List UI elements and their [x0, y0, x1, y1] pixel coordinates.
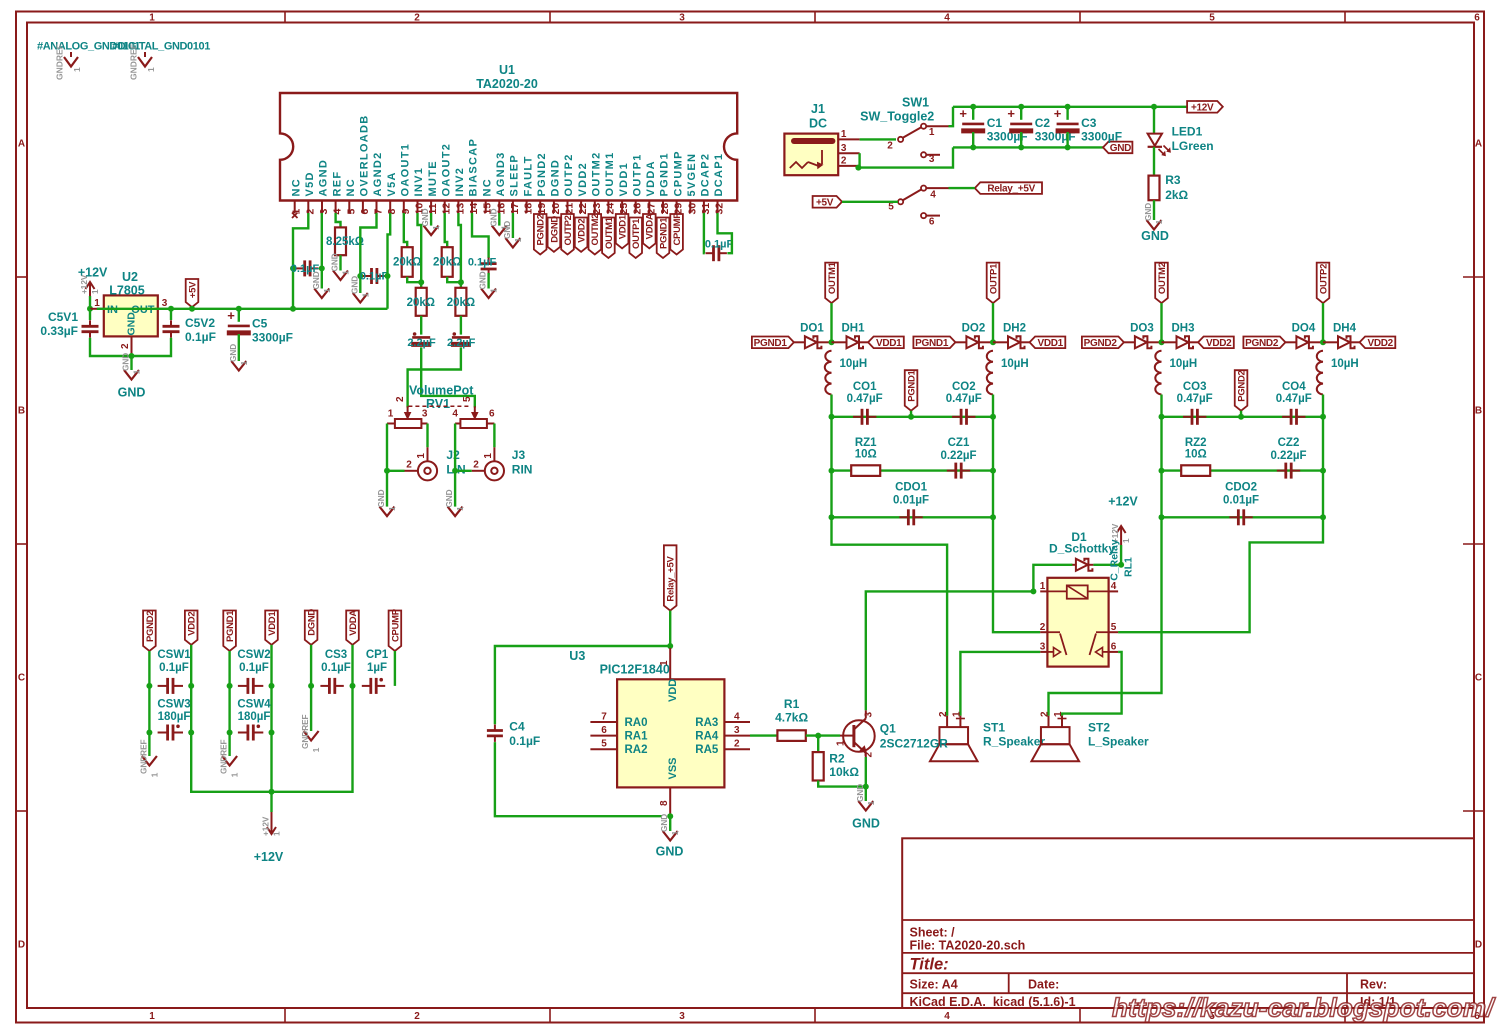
wire Q1 collector to relay pin1: [866, 591, 1034, 710]
resistor R1 4.7k: [777, 730, 805, 741]
junction: [87, 306, 93, 312]
svg-text:2: 2: [1040, 622, 1046, 633]
wire: [1160, 395, 1162, 417]
svg-text:B: B: [18, 406, 25, 417]
svg-text:VDD1: VDD1: [618, 214, 629, 239]
svg-text:PGND1: PGND1: [225, 610, 236, 642]
svg-text:20: 20: [550, 203, 562, 215]
diode DH1: [847, 336, 859, 348]
svg-text:OAOUT1: OAOUT1: [400, 143, 412, 197]
svg-text:3: 3: [841, 143, 847, 154]
svg-text:31: 31: [700, 203, 712, 215]
svg-text:30: 30: [686, 203, 698, 215]
svg-text:NC: NC: [481, 178, 493, 197]
diode DH4: [1338, 336, 1350, 348]
svg-text:OUTP2: OUTP2: [1318, 264, 1329, 294]
svg-text:2: 2: [841, 156, 847, 167]
inductor 10uH (OUTM1): [825, 351, 832, 395]
svg-text:24: 24: [604, 203, 616, 215]
ground GNDREF (PGND2): [148, 733, 150, 757]
svg-text:C2: C2: [1035, 116, 1051, 130]
svg-text:3: 3: [162, 298, 168, 309]
svg-text:0.33µF: 0.33µF: [40, 324, 78, 338]
global label OUTM2 (pin 23): [589, 214, 602, 255]
svg-text:5: 5: [888, 202, 894, 213]
svg-text:Rev:: Rev:: [1360, 978, 1387, 992]
global label OUTM1: [825, 263, 838, 304]
svg-text:VDD2: VDD2: [1367, 338, 1393, 349]
svg-text:GND: GND: [503, 221, 512, 239]
junction: [815, 733, 821, 739]
wire SW1 throw1 to +12V rail: [949, 107, 954, 126]
wire: [387, 470, 405, 472]
ground: [130, 356, 132, 370]
global label VDD1 (bank): [265, 611, 278, 645]
capacitor CSW4 180uF: [246, 725, 249, 741]
svg-text:CSW4: CSW4: [237, 699, 271, 711]
svg-text:GND: GND: [1144, 203, 1153, 221]
svg-text:PGND1: PGND1: [915, 338, 949, 349]
global label PGND2: [1082, 337, 1124, 349]
global label VDD2: [1360, 337, 1396, 349]
capacitor C5V1 0.33uF: [89, 309, 91, 320]
svg-text:LED1: LED1: [1172, 125, 1203, 139]
wire J1 pins 2,3: [858, 153, 860, 167]
svg-text:Date:: Date:: [1028, 978, 1059, 992]
diode DO2: [966, 336, 978, 348]
diode DO4: [1296, 336, 1308, 348]
svg-text:1: 1: [1053, 711, 1064, 717]
svg-text:DO1: DO1: [800, 323, 824, 335]
svg-text:5: 5: [1111, 622, 1117, 633]
wire OUTP2 rail to relay pin5: [1118, 517, 1323, 632]
svg-text:ST1: ST1: [983, 721, 1005, 735]
svg-text:+5V: +5V: [816, 197, 834, 208]
svg-text:1: 1: [951, 711, 962, 717]
capacitor C2 3300uF: [1020, 107, 1022, 120]
svg-text:+12V: +12V: [262, 816, 271, 836]
svg-text:180µF: 180µF: [158, 711, 191, 723]
svg-text:SW1: SW1: [902, 96, 929, 110]
svg-text:1: 1: [133, 369, 142, 374]
svg-text:PGND1: PGND1: [658, 217, 669, 249]
svg-text:U1: U1: [499, 63, 515, 77]
svg-text:2: 2: [304, 209, 316, 215]
wire pot1 pin3 to J2: [426, 424, 428, 448]
svg-text:D_Schottky: D_Schottky: [1049, 542, 1115, 556]
svg-text:PGND2: PGND2: [536, 214, 547, 245]
svg-text:2: 2: [938, 711, 949, 717]
svg-text:3: 3: [864, 712, 875, 718]
svg-text:1: 1: [456, 506, 465, 511]
svg-text:1: 1: [1122, 538, 1131, 543]
capacitor CO4 0.47uF: [1290, 409, 1293, 425]
svg-text:DH4: DH4: [1333, 323, 1357, 335]
svg-text:OUTM2: OUTM2: [590, 214, 601, 246]
svg-text:1: 1: [416, 453, 427, 459]
capacitor CSW3 180uF: [166, 725, 169, 741]
global label PGND1 (bank): [223, 611, 236, 652]
svg-text:0.1µF: 0.1µF: [321, 662, 351, 674]
capacitor C4 0.1uF: [487, 729, 503, 732]
wire R1 to Q1: [806, 734, 840, 736]
capacitor C5V2 0.1uF: [170, 309, 172, 320]
svg-text:PGND2: PGND2: [1245, 338, 1279, 349]
svg-text:22: 22: [577, 203, 589, 215]
svg-text:REF: REF: [331, 171, 343, 197]
capacitor 2.2uF (right): [452, 336, 470, 339]
svg-text:0.47µF: 0.47µF: [1177, 393, 1213, 405]
svg-text:CO2: CO2: [952, 381, 976, 393]
svg-text:Q1: Q1: [880, 722, 896, 736]
svg-text:Relay_+5V: Relay_+5V: [666, 556, 677, 602]
svg-text:4: 4: [734, 712, 740, 723]
svg-text:0.1µF: 0.1µF: [360, 271, 389, 283]
svg-text:26: 26: [632, 203, 644, 215]
wire: [351, 645, 353, 686]
svg-text:RV1: RV1: [426, 397, 450, 411]
svg-text:OUTP1: OUTP1: [631, 218, 642, 249]
svg-text:AGND: AGND: [318, 159, 330, 197]
svg-text:VDDA: VDDA: [645, 160, 657, 196]
svg-text:1: 1: [361, 292, 370, 297]
global label PGND1: [913, 337, 955, 349]
svg-text:3: 3: [929, 154, 935, 165]
capacitor C5 3300uF: [238, 309, 240, 322]
wire: [830, 395, 832, 417]
wire pot2 pin4: [454, 424, 456, 471]
capacitor CSW1 0.1uF: [166, 678, 169, 694]
svg-text:0.1µF: 0.1µF: [468, 257, 497, 269]
svg-text:CO1: CO1: [853, 381, 877, 393]
svg-text:+12V: +12V: [1191, 102, 1214, 113]
svg-text:C1: C1: [987, 116, 1003, 130]
svg-text:RZ2: RZ2: [1185, 437, 1207, 449]
global label VDD1: [1030, 337, 1066, 349]
svg-text:NC: NC: [290, 178, 302, 197]
global label DGND (bank): [305, 611, 318, 645]
diode DH3: [1177, 336, 1189, 348]
wire pin8 V5A to +5V rail: [388, 213, 391, 309]
svg-text:2: 2: [414, 1011, 420, 1022]
svg-text:VDD1: VDD1: [618, 162, 630, 197]
wire: [1322, 395, 1324, 417]
wire INV1 cap to right pot wiper: [421, 347, 475, 407]
svg-text:CSW1: CSW1: [157, 649, 191, 661]
svg-text:1: 1: [432, 225, 441, 230]
svg-text:4: 4: [332, 209, 344, 215]
wire pot2 pin6 to J3: [493, 424, 495, 448]
wire OUTM1 down: [830, 303, 832, 342]
junction: [189, 306, 195, 312]
junction: [418, 279, 424, 285]
wire: [460, 316, 462, 335]
svg-text:CPUMP: CPUMP: [672, 150, 684, 196]
wire CO row: [832, 416, 994, 418]
ground: [386, 471, 388, 507]
no-connect pin 1: [292, 213, 298, 219]
wire bank columns: [148, 686, 150, 733]
svg-text:8.25kΩ: 8.25kΩ: [326, 236, 364, 248]
svg-text:3: 3: [734, 725, 740, 736]
wire pin7 AGND2: [360, 213, 376, 276]
svg-text:1: 1: [149, 13, 155, 24]
svg-text:J3: J3: [512, 448, 526, 462]
svg-text:GNDREF: GNDREF: [301, 714, 310, 749]
wire pin9 OAOUT1: [404, 213, 407, 247]
svg-text:J2: J2: [446, 448, 460, 462]
resistor RZ2 10ohm: [1181, 465, 1210, 476]
ground: [238, 349, 240, 362]
junction: [1159, 514, 1165, 520]
wire: [228, 651, 230, 686]
svg-text:OUTP1: OUTP1: [988, 263, 999, 294]
svg-text:VDD2: VDD2: [577, 162, 589, 197]
junction: [1159, 468, 1165, 474]
wire GND rail: [953, 146, 1103, 148]
svg-text:VDD1: VDD1: [1037, 338, 1063, 349]
wire pin4 REF: [336, 213, 341, 227]
svg-text:RZ1: RZ1: [855, 437, 877, 449]
svg-text:IN: IN: [107, 304, 118, 316]
svg-text:BIASCAP: BIASCAP: [468, 138, 480, 197]
svg-text:VDD2: VDD2: [1206, 338, 1232, 349]
wire R2 to GND: [818, 781, 866, 787]
svg-text:INV2: INV2: [454, 167, 466, 197]
svg-text:5: 5: [462, 396, 473, 402]
svg-text:CO3: CO3: [1183, 381, 1207, 393]
svg-text:PGND2: PGND2: [1236, 370, 1247, 401]
wire pin2 V5D to +5V rail: [293, 213, 308, 309]
svg-text:U2: U2: [122, 270, 138, 284]
svg-text:0.47µF: 0.47µF: [847, 393, 883, 405]
junction: [385, 273, 391, 279]
wire +5V to SW1: [842, 201, 898, 203]
junction: [357, 273, 363, 279]
svg-text:DGND: DGND: [307, 609, 318, 636]
global label CPUMP (bank): [389, 611, 402, 652]
svg-text:+5V: +5V: [187, 281, 198, 298]
svg-text:GND: GND: [350, 276, 359, 294]
svg-text:1: 1: [240, 360, 249, 365]
svg-text:DO3: DO3: [1130, 323, 1154, 335]
global label DGND (pin 20): [548, 218, 561, 252]
wire C4 top: [495, 646, 670, 724]
svg-text:21: 21: [564, 203, 576, 215]
junction: [146, 730, 152, 736]
svg-text:L7805: L7805: [109, 284, 144, 298]
svg-text:4: 4: [1111, 581, 1117, 592]
svg-text:1: 1: [671, 830, 680, 835]
svg-text:https://kazu-car.blogspot.com/: https://kazu-car.blogspot.com/: [1112, 993, 1496, 1023]
svg-text:6: 6: [1111, 642, 1117, 653]
svg-text:C_Relay: C_Relay: [1109, 539, 1121, 581]
svg-text:C: C: [1475, 673, 1482, 684]
junction: [990, 339, 996, 345]
junction: [667, 643, 673, 649]
svg-text:RA4: RA4: [695, 731, 719, 743]
svg-text:DH1: DH1: [841, 323, 865, 335]
LED LED1 LGreen: [1153, 107, 1155, 134]
junction: [290, 265, 296, 271]
svg-text:1: 1: [836, 740, 847, 746]
svg-text:3: 3: [422, 409, 428, 420]
svg-text:FAULT: FAULT: [522, 155, 534, 196]
svg-text:+: +: [959, 106, 967, 121]
svg-text:PGND1: PGND1: [906, 369, 917, 401]
capacitor C3 3300uF: [1066, 107, 1068, 120]
wire OUTM2 rail to ST2: [1049, 517, 1162, 715]
svg-text:CDO1: CDO1: [895, 482, 928, 494]
wire CO row: [1162, 416, 1324, 418]
connector J1 DC: [784, 134, 838, 176]
svg-text:RIN: RIN: [512, 463, 533, 477]
svg-text:2.2µF: 2.2µF: [447, 337, 476, 349]
svg-text:CPUMP: CPUMP: [390, 608, 401, 642]
svg-text:3: 3: [679, 13, 685, 24]
resistor 20k (INV1): [416, 288, 427, 316]
svg-text:VSS: VSS: [667, 757, 679, 779]
global label OUTP2: [1317, 263, 1330, 304]
junction: [452, 468, 458, 474]
svg-text:AGND2: AGND2: [372, 151, 384, 196]
svg-text:10µH: 10µH: [1170, 358, 1198, 370]
svg-text:1: 1: [659, 660, 670, 666]
svg-text:PGND1: PGND1: [659, 152, 671, 196]
regulator U2 L7805: [104, 295, 158, 336]
svg-text:1: 1: [323, 288, 332, 293]
junction: [319, 265, 325, 271]
resistor 20k (OAOUT2): [442, 247, 453, 277]
wire: [407, 277, 421, 282]
svg-text:180µF: 180µF: [238, 711, 271, 723]
svg-text:2: 2: [406, 460, 412, 471]
svg-text:1: 1: [929, 127, 935, 138]
svg-text:OUTM2: OUTM2: [591, 152, 603, 197]
connector J3 RIN: [493, 447, 495, 461]
svg-text:20kΩ: 20kΩ: [447, 297, 475, 309]
wire RZ/CZ row: [1160, 417, 1162, 518]
wire pin10 INV1: [418, 213, 422, 288]
svg-text:GND: GND: [122, 353, 131, 371]
capacitor CO3 0.47uF: [1191, 409, 1194, 425]
resistor 20k (INV2): [455, 288, 466, 316]
svg-text:VDD1: VDD1: [876, 338, 902, 349]
capacitor C1 3300uF: [972, 107, 974, 120]
svg-text:4: 4: [944, 1011, 950, 1022]
svg-text:RA2: RA2: [625, 744, 648, 756]
svg-text:C: C: [18, 673, 25, 684]
resistor 20k (OAOUT1): [402, 247, 413, 277]
junction: [146, 683, 152, 689]
junction: [1159, 414, 1165, 420]
svg-text:DO2: DO2: [962, 323, 986, 335]
svg-text:CO4: CO4: [1282, 381, 1306, 393]
svg-text:2: 2: [473, 460, 479, 471]
svg-text:0.22µF: 0.22µF: [940, 450, 976, 462]
wire OUTP1 down: [992, 303, 994, 342]
wire OUTM1 rail to ST1: [832, 517, 948, 715]
svg-text:VDD2: VDD2: [577, 219, 588, 243]
svg-text:PGND2: PGND2: [145, 611, 156, 642]
capacitor 0.1uF (V5A): [370, 268, 373, 284]
junction: [1065, 104, 1071, 110]
svg-text:GND: GND: [856, 784, 865, 802]
capacitor CS3 0.1uF: [328, 678, 331, 694]
svg-text:DCAP1: DCAP1: [713, 153, 725, 197]
svg-text:+12V: +12V: [1108, 495, 1138, 509]
svg-text:PGND2: PGND2: [536, 152, 548, 196]
svg-text:1: 1: [1155, 219, 1164, 224]
junction: [1320, 339, 1326, 345]
svg-text:GND: GND: [312, 271, 321, 289]
ground GNDREF (DGND): [310, 686, 312, 731]
svg-text:DGND: DGND: [550, 159, 562, 197]
svg-text:GND: GND: [377, 489, 386, 507]
global label GND: [1103, 142, 1132, 154]
svg-text:TA2020-20: TA2020-20: [476, 77, 538, 91]
global label PGND2 (bank): [143, 611, 156, 652]
svg-text:B: B: [1475, 406, 1482, 417]
resistor R3 2k: [1153, 147, 1155, 176]
junction: [855, 165, 861, 171]
wire: [394, 651, 396, 686]
junction: [168, 306, 174, 312]
speaker ST1 R_Speaker: [946, 716, 948, 727]
svg-text:PGND2: PGND2: [1084, 338, 1118, 349]
svg-text:OUTM2: OUTM2: [1157, 262, 1168, 294]
junction: [829, 414, 835, 420]
svg-text:MUTE: MUTE: [427, 160, 439, 196]
svg-text:20kΩ: 20kΩ: [393, 257, 421, 269]
wire OUTM2 down: [1160, 303, 1162, 342]
svg-text:10µH: 10µH: [1331, 358, 1359, 370]
ground pin17 SLEEP: [512, 213, 514, 238]
global label OUTP2 (pin 21): [561, 214, 574, 255]
capacitor CO1 0.47uF: [861, 409, 864, 425]
wire: [270, 645, 272, 686]
IC U1 TA2020-20: [280, 93, 737, 201]
svg-text:V5A: V5A: [386, 171, 398, 196]
svg-text:CZ1: CZ1: [948, 437, 970, 449]
svg-text:6: 6: [601, 725, 607, 736]
svg-text:2: 2: [1040, 711, 1051, 717]
speaker ST2 L_Speaker: [1048, 716, 1050, 727]
wire +12V rail: [953, 106, 1188, 108]
svg-text:R_Speaker: R_Speaker: [983, 735, 1045, 749]
capacitor CDO2 0.01uF: [1162, 516, 1324, 518]
wire pin3 AGND: [321, 213, 323, 289]
svg-text:R2: R2: [829, 751, 845, 765]
svg-text:GND: GND: [229, 344, 238, 362]
wire pin31 DCAP2: [703, 213, 706, 253]
wire +5V rail: [97, 308, 388, 310]
svg-text:VDDA: VDDA: [348, 610, 359, 636]
svg-text:3300µF: 3300µF: [1081, 130, 1122, 144]
global label VDD2: [1198, 337, 1234, 349]
svg-text:9: 9: [400, 209, 412, 215]
wire pin13 INV2: [458, 213, 461, 288]
ground: [454, 471, 456, 507]
svg-text:1: 1: [72, 67, 82, 72]
global label PGND1: [905, 370, 918, 411]
junction: [236, 306, 242, 312]
svg-text:1: 1: [841, 129, 847, 140]
svg-text:1: 1: [150, 772, 159, 777]
wire SW1 throw4 to Relay_+5V: [949, 187, 975, 189]
svg-text:VDDA: VDDA: [645, 213, 656, 239]
svg-text:5: 5: [601, 739, 607, 750]
